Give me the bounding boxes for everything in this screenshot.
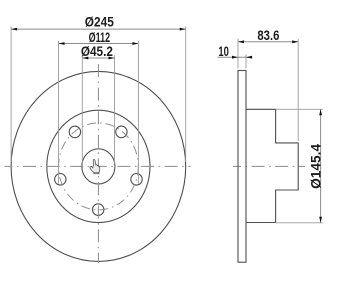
svg-text:Ø245: Ø245 xyxy=(85,14,114,30)
svg-text:10: 10 xyxy=(218,43,229,59)
svg-text:Ø45.2: Ø45.2 xyxy=(81,43,113,59)
svg-text:Ø145.4: Ø145.4 xyxy=(307,144,323,189)
svg-text:83.6: 83.6 xyxy=(257,27,279,43)
